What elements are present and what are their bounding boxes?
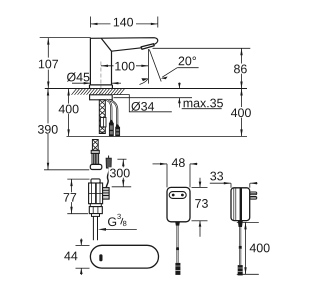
spout tip vertical reference xyxy=(147,49,149,84)
cover plate oval xyxy=(90,245,158,268)
sensor window xyxy=(99,254,102,261)
20 degree leader with arrow xyxy=(177,67,198,69)
dim 86 xyxy=(153,47,251,49)
Ø45 leader xyxy=(72,82,90,84)
dim 44 xyxy=(76,244,90,246)
aerator xyxy=(141,44,154,50)
shank window xyxy=(100,118,106,127)
shank collar xyxy=(91,150,99,153)
label max.35 xyxy=(184,99,223,108)
threaded shank below counter xyxy=(99,100,105,134)
G3/8 leader arrow xyxy=(98,228,106,231)
dim 48 xyxy=(153,163,168,165)
hose 2 plug xyxy=(116,124,120,127)
valve body xyxy=(91,179,100,183)
dim 140 xyxy=(91,17,158,28)
hose 2 xyxy=(109,100,118,125)
dim 400 left xyxy=(68,89,70,137)
label Ø45 xyxy=(67,72,89,81)
dim 100 xyxy=(101,65,148,67)
dim 73 xyxy=(192,186,208,188)
power supply front view xyxy=(167,187,190,221)
Ø34 callout xyxy=(113,95,172,112)
max.35 dimension xyxy=(114,97,193,99)
power supply side view xyxy=(231,188,250,221)
G 3/8 label xyxy=(108,217,116,226)
plug prongs xyxy=(250,192,257,195)
bottom reference line 400 xyxy=(67,135,248,137)
solenoid plug xyxy=(106,158,111,168)
washer nut xyxy=(90,164,102,169)
dim 33 xyxy=(210,182,231,184)
valve neck xyxy=(90,204,101,207)
side cable bead xyxy=(239,246,242,249)
dim 400 right xyxy=(241,89,243,137)
psu front plug xyxy=(175,263,180,275)
20 degree arc xyxy=(140,79,149,85)
faucet centerline xyxy=(100,62,102,97)
dim 300 xyxy=(117,158,126,160)
solenoid cable xyxy=(106,168,109,188)
supply pipe xyxy=(93,216,97,240)
psu side plug xyxy=(238,265,243,275)
20 degree slant line xyxy=(149,50,161,82)
hose 1 xyxy=(106,100,111,120)
socket face xyxy=(169,192,186,199)
dim 107 xyxy=(40,37,91,39)
faucet body outline xyxy=(90,38,158,89)
dim 400 bottom right xyxy=(237,221,259,223)
threaded section xyxy=(92,154,99,165)
psu side strain relief xyxy=(238,221,243,227)
psu front strain relief xyxy=(175,222,180,226)
solenoid protrusion xyxy=(103,188,110,200)
counter top line xyxy=(45,88,247,90)
under-counter washer xyxy=(90,95,113,100)
shank crosshatch xyxy=(92,140,98,151)
dim 77 xyxy=(67,178,89,180)
psu front cable xyxy=(177,226,179,248)
label Ø34 xyxy=(131,102,154,111)
valve ring xyxy=(92,214,100,217)
counter hatching xyxy=(72,89,125,95)
hose 1 plug xyxy=(109,120,113,123)
valve nut xyxy=(89,207,102,214)
psu side cable xyxy=(239,227,241,246)
dim 390 xyxy=(47,89,49,170)
cable bead xyxy=(176,247,179,250)
label 20deg xyxy=(179,57,196,66)
